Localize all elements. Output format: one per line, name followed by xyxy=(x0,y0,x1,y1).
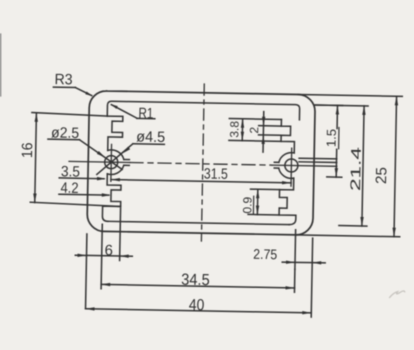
screw boss right - outer arc lower xyxy=(279,168,294,178)
svg-text:R3: R3 xyxy=(54,71,72,88)
dimension 31.5 between boss centerlines xyxy=(111,180,291,183)
right wall stub up to top fin xyxy=(281,119,295,152)
scan artifact - dark edge line at left border xyxy=(0,34,2,96)
svg-text:34.5: 34.5 xyxy=(181,272,210,290)
svg-text:2.75: 2.75 xyxy=(253,246,277,262)
svg-text:2: 2 xyxy=(247,126,261,133)
screw boss left - slit mouth xyxy=(124,159,129,161)
horizontal centerline through both screw bosses xyxy=(69,161,130,162)
left wall top fin with PCB slot xyxy=(107,116,123,151)
left boss vertical centerline xyxy=(110,144,113,181)
screw boss right - inner hole dia 2.5 xyxy=(285,159,298,172)
left wall below boss and bottom fin with slot xyxy=(102,174,121,222)
dimension 1.5 right side xyxy=(315,104,342,107)
screw boss left - inner hole dia 2.5 xyxy=(105,156,118,169)
inner top surface with R1 corners and upper wall stubs xyxy=(107,101,299,120)
svg-text:0.9: 0.9 xyxy=(240,196,254,213)
dimension 34.5 bottom xyxy=(101,224,102,288)
right wall lower lip and bottom fin with slot xyxy=(279,178,297,225)
screw boss left - outer arc lower xyxy=(107,165,123,175)
screw boss right - slit mouth xyxy=(274,167,278,169)
dimension 2 right top fin slot height xyxy=(259,125,282,127)
dimension 16 left vertical xyxy=(32,113,107,117)
inner bottom surface xyxy=(108,221,289,224)
svg-text:31.5: 31.5 xyxy=(204,165,228,182)
dimension 0.9 right bottom fin xyxy=(251,188,280,191)
svg-text:40: 40 xyxy=(189,297,205,314)
right boss vertical centerline xyxy=(290,148,293,186)
svg-text:21.4: 21.4 xyxy=(347,147,364,192)
vertical centerline of profile xyxy=(201,84,204,241)
svg-text:6: 6 xyxy=(104,242,113,259)
screw boss U1 left - outer arc upper xyxy=(108,150,124,160)
dimension 25 outer height xyxy=(298,94,402,96)
dimension 40 overall width xyxy=(86,309,312,313)
svg-text:25: 25 xyxy=(373,167,390,184)
svg-text:1.5: 1.5 xyxy=(324,129,339,147)
dimension 21.4 inner height xyxy=(315,104,368,107)
dimension 3.8 right top fin height xyxy=(229,118,281,121)
dimension 6 bottom left xyxy=(86,234,87,308)
svg-text:3.8: 3.8 xyxy=(227,121,241,138)
svg-text:R1: R1 xyxy=(138,105,153,122)
faint pencil smudge bottom right xyxy=(390,291,405,298)
svg-text:16: 16 xyxy=(19,142,36,158)
outer profile of extrusion (40 x 25 rounded rectangle, R3 corners) xyxy=(87,91,315,236)
dimension 2.75 bottom right xyxy=(294,230,297,269)
screw boss right - outer arc upper xyxy=(279,152,294,162)
